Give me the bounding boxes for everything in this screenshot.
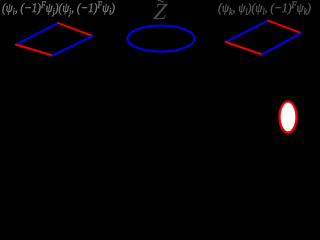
svg-text:(ψk, ψl)(ψl, (−1)Fψk): (ψk, ψl)(ψl, (−1)Fψk) [218, 0, 311, 17]
